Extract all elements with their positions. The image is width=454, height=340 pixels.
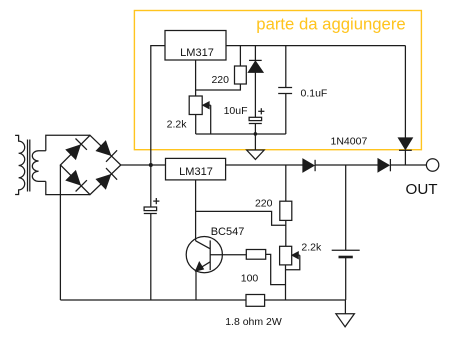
OUT terminal circle [426, 159, 438, 171]
wire secondary top lead [46, 135, 90, 151]
bridge diode lower-right [97, 168, 118, 189]
wire U2 input [151, 46, 165, 165]
svg-text:220: 220 [255, 198, 273, 210]
svg-text:1N4007: 1N4007 [331, 136, 368, 148]
transformer T1 primary winding [15, 135, 25, 194]
battery [332, 165, 360, 300]
diode D2 (across R1, added part) [249, 46, 263, 118]
wire bottom net of added part [196, 133, 286, 135]
wire filter cap bottom [150, 214, 152, 301]
svg-text:2.2k: 2.2k [167, 119, 188, 131]
svg-text:2.2k: 2.2k [301, 241, 322, 253]
potentiometer P2 2.2k [280, 246, 300, 300]
svg-text:LM317: LM317 [180, 47, 214, 59]
svg-text:BC547: BC547 [211, 226, 245, 238]
transistor Q1 BC547 [186, 237, 246, 301]
wire U1 adjust down to Q1 collector [195, 180, 197, 241]
resistor R3 220 [280, 201, 292, 246]
ground rail wire [60, 299, 345, 301]
potentiometer P1 2.2k (added part) [189, 96, 211, 134]
diode D3 (series output) [303, 159, 315, 172]
transformer T1 core [28, 140, 30, 192]
wire bridge output to regulator [121, 164, 166, 166]
wire D3 to D4 [315, 164, 378, 166]
wire adjust to R1 bottom [196, 84, 241, 90]
diode D4 (series output) [378, 159, 390, 172]
wire adjust tee to R3/P2 junction [196, 211, 286, 225]
bridge diode upper-left [66, 139, 87, 160]
svg-text:0.1uF: 0.1uF [301, 88, 328, 100]
wire U2 adjust [195, 60, 197, 96]
capacitor C3 0.1uF (added part) [278, 46, 292, 134]
bridge diode upper-right [97, 141, 118, 162]
regulator U2 LM317 (added part) [165, 31, 226, 61]
svg-text:1.8 ohm 2W: 1.8 ohm 2W [225, 316, 282, 328]
diode D5 1N4007 (added part) [399, 46, 413, 165]
added-part boundary box [134, 11, 421, 150]
resistor R1 220 (added part) [235, 46, 247, 84]
ground symbol [336, 300, 355, 327]
svg-text:220: 220 [211, 74, 229, 86]
wire bridge left corner to ground rail [59, 165, 61, 300]
capacitor C2 10uF (added part) [249, 108, 265, 134]
wire U2 output rail [226, 45, 405, 47]
filter capacitor (electrolytic) [144, 198, 160, 214]
svg-text:OUT: OUT [406, 181, 438, 198]
wire secondary bottom lead [46, 181, 90, 194]
svg-text:LM317: LM317 [179, 166, 213, 178]
resistor R4 100 [246, 250, 285, 285]
bridge diode lower-left [66, 171, 87, 192]
bridge rectifier diamond [60, 135, 120, 194]
wire U1 output [226, 164, 303, 166]
svg-text:10uF: 10uF [224, 105, 248, 117]
svg-text:100: 100 [241, 273, 259, 285]
resistor R5 1.8 ohm 2W [246, 295, 265, 307]
junction main line / filter cap [149, 163, 153, 167]
wire filter cap top [150, 165, 152, 207]
connection arrow to output line [247, 134, 265, 159]
transformer T1 secondary winding [32, 151, 46, 182]
svg-text:parte da aggiungere: parte da aggiungere [256, 15, 405, 34]
wire D4 to OUT terminal [390, 164, 426, 166]
junction added-part bottom net [254, 132, 258, 136]
regulator U1 LM317 (main) [166, 158, 226, 180]
wire main line to R3 [285, 165, 287, 201]
